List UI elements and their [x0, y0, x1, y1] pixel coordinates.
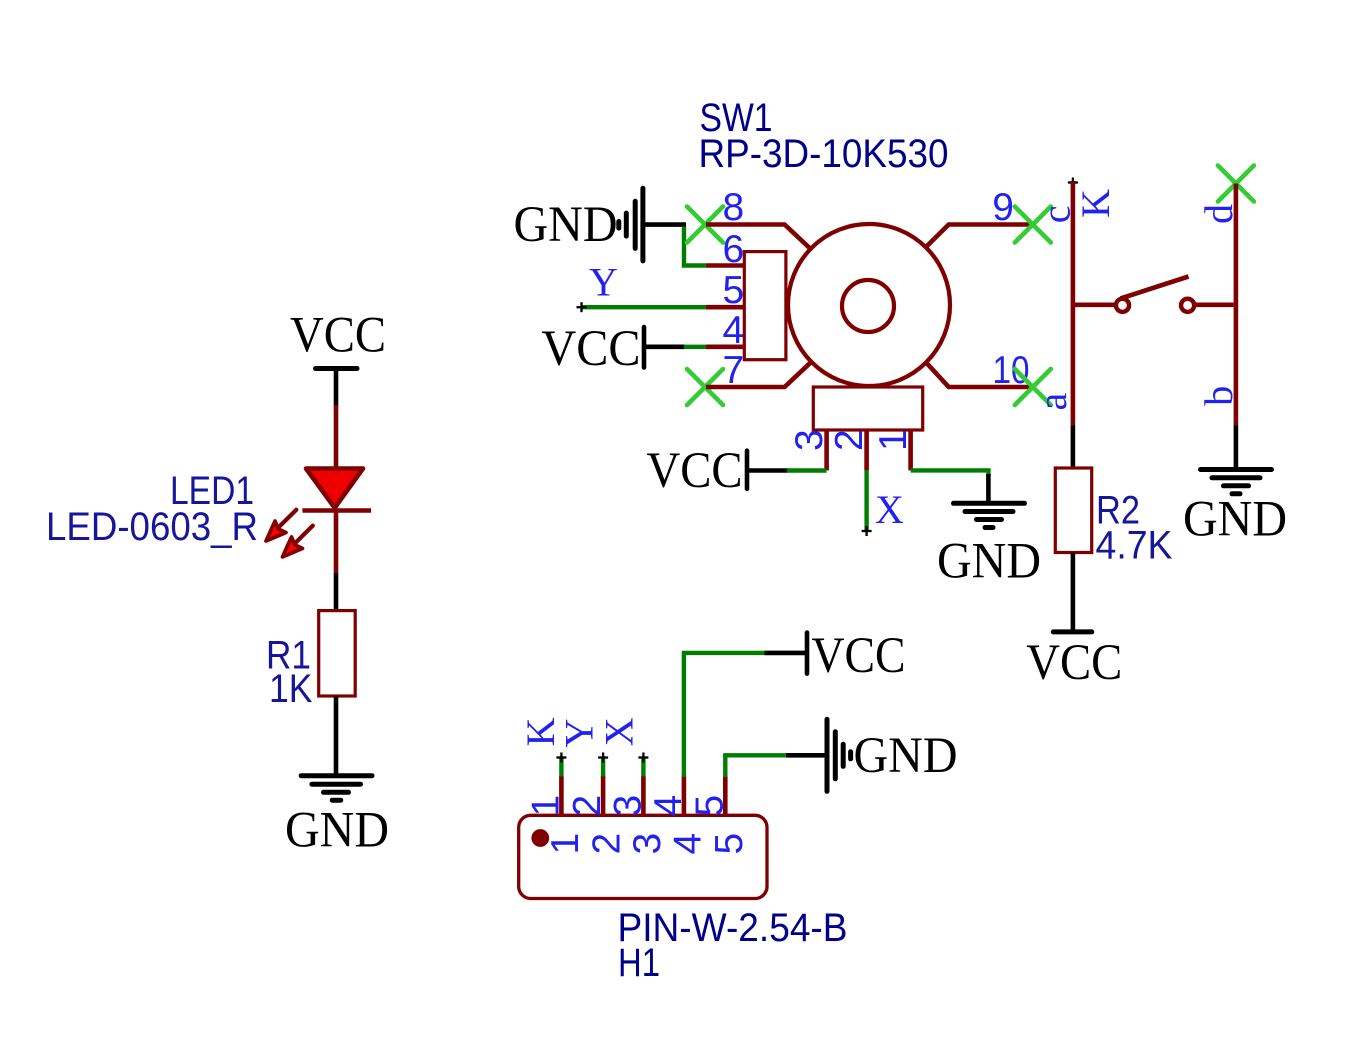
H1 pin 5	[723, 776, 728, 817]
power flag VCC (H1 pin 4)	[765, 628, 906, 684]
svg-text:GND: GND	[285, 803, 389, 859]
wire Y to SW1 pin 5	[583, 305, 707, 309]
svg-text:10: 10	[993, 349, 1030, 392]
LED LED1 emission arrow 1	[266, 510, 296, 541]
SW1 pin 2	[864, 430, 869, 470]
svg-text:LED-0603_R: LED-0603_R	[46, 505, 258, 549]
svg-text:8: 8	[723, 186, 745, 229]
svg-text:1: 1	[872, 429, 915, 451]
svg-text:4: 4	[647, 795, 690, 817]
SW1 pin 5	[706, 305, 744, 310]
wire VCC to SW1 pin 3	[787, 468, 827, 472]
H1 pin 1	[559, 776, 564, 817]
ground GND (H1 pin 5, rotated)	[786, 719, 958, 791]
H1 pin 3	[641, 776, 646, 817]
svg-text:5: 5	[708, 833, 751, 855]
svg-text:Y: Y	[589, 260, 618, 305]
wire Y stub (H1 pin 2)	[601, 758, 605, 777]
svg-text:9: 9	[992, 186, 1014, 229]
wire-end tick (Y)	[577, 302, 587, 312]
wire-end tick (H1 pin 3)	[638, 753, 648, 763]
svg-text:4: 4	[666, 833, 709, 855]
svg-text:4.7K: 4.7K	[1096, 524, 1173, 568]
SW1 pin 4	[706, 344, 744, 349]
power flag VCC (LED branch top)	[290, 308, 386, 369]
switch contact arm left	[1073, 302, 1114, 307]
svg-text:1: 1	[524, 795, 567, 817]
wire R1 to GND	[334, 696, 339, 776]
SW1 bottom block	[813, 387, 922, 430]
switch contact arm right	[1194, 302, 1233, 307]
SW1 pin 9	[927, 225, 1033, 247]
wire SW1 pin 1 to GND	[911, 470, 989, 476]
wire R2 to VCC	[1071, 553, 1076, 631]
H1 pin 2	[601, 776, 606, 817]
svg-text:VCC: VCC	[290, 308, 386, 364]
wire H1 pin 5 to GND	[725, 755, 786, 777]
wire H1 pin 4 to VCC	[684, 653, 765, 777]
svg-text:3: 3	[626, 833, 669, 855]
H1 pin 4	[682, 776, 687, 817]
SW1 pin 7	[706, 362, 812, 387]
svg-text:3: 3	[788, 429, 831, 451]
svg-text:X: X	[597, 717, 642, 746]
LED LED1 emission arrow 2	[283, 526, 313, 557]
switch contact circle left	[1116, 299, 1129, 312]
wire X net from SW1 pin 2	[864, 470, 868, 532]
svg-text:VCC: VCC	[647, 443, 743, 499]
svg-text:b: b	[1196, 386, 1241, 406]
ground GND (left of SW1, rotated)	[514, 188, 687, 261]
svg-text:2: 2	[566, 795, 609, 817]
wire (black) down to ground	[986, 474, 991, 504]
svg-text:5: 5	[688, 795, 731, 817]
svg-text:H1: H1	[618, 941, 660, 985]
svg-text:4: 4	[723, 309, 745, 352]
SW1 rotor outer circle	[788, 224, 950, 386]
svg-text:6: 6	[723, 228, 745, 271]
svg-text:X: X	[875, 487, 904, 532]
wire K stub (H1 pin 1)	[559, 758, 563, 777]
svg-text:2: 2	[586, 833, 629, 855]
svg-text:a: a	[1030, 393, 1075, 411]
wire (black) K to R2	[1071, 425, 1076, 469]
svg-text:GND: GND	[514, 197, 618, 253]
power flag VCC (SW1 pin 4)	[542, 321, 686, 377]
wire VCC to SW1 pin 4	[684, 345, 706, 349]
ground GND (net b)	[1183, 470, 1287, 548]
wire GND to SW1 pin 6	[684, 227, 706, 266]
switch lever	[1121, 277, 1189, 299]
svg-text:GND: GND	[937, 534, 1041, 590]
ground GND (LED branch)	[285, 776, 389, 859]
power flag VCC (SW1 pin 3)	[647, 443, 789, 499]
resistor R2	[1055, 468, 1091, 553]
wire-end tick (H1 pin 2)	[598, 753, 608, 763]
SW1 pin 8	[706, 225, 812, 250]
SW1 pin 6	[706, 263, 745, 268]
svg-text:VCC: VCC	[812, 628, 906, 684]
SW1 pin 10	[927, 363, 1033, 387]
LED LED1 body	[302, 469, 371, 511]
SW1 pin 3	[824, 430, 829, 470]
no-connect X (net d top)	[1218, 166, 1254, 202]
ground GND (SW1 pin 1)	[937, 503, 1041, 589]
svg-text:1K: 1K	[269, 667, 313, 711]
header H1 body	[519, 815, 767, 898]
svg-text:GND: GND	[1183, 492, 1287, 548]
switch contact circle right	[1181, 299, 1194, 312]
LED LED1 anode pin	[334, 405, 339, 468]
SW1 rotor inner circle	[842, 280, 894, 332]
header H1 pin-1 dot	[531, 829, 549, 847]
no-connect X (pin 10)	[1015, 369, 1051, 405]
LED LED1 cathode pin	[334, 511, 339, 574]
svg-text:5: 5	[723, 269, 745, 312]
wire LED1 to R1	[334, 573, 339, 612]
SW1 wiper block	[744, 252, 786, 360]
wire-end tick (H1 pin 1)	[556, 753, 566, 763]
wire d/b net vertical	[1234, 184, 1239, 426]
svg-text:K: K	[1073, 189, 1118, 218]
svg-text:1: 1	[544, 833, 587, 855]
svg-text:2: 2	[828, 429, 871, 451]
SW1 pin 1	[908, 430, 913, 470]
svg-text:RP-3D-10K530: RP-3D-10K530	[699, 132, 949, 176]
resistor R1	[319, 611, 356, 696]
wire VCC to LED1 anode	[334, 369, 339, 407]
svg-text:7: 7	[723, 349, 745, 392]
svg-text:VCC: VCC	[1026, 635, 1122, 691]
wire K net vertical	[1071, 181, 1076, 425]
no-connect X (pin 8)	[687, 207, 723, 243]
wire (black) b to GND	[1234, 425, 1239, 470]
no-connect X (pin 9)	[1015, 207, 1051, 243]
no-connect X (pin 7)	[687, 369, 723, 405]
power flag VCC (below R2)	[1026, 632, 1122, 691]
svg-text:VCC: VCC	[542, 321, 641, 377]
wire-end tick (K top)	[1068, 178, 1078, 188]
svg-text:GND: GND	[854, 728, 958, 784]
svg-text:Y: Y	[556, 719, 601, 748]
svg-text:3: 3	[606, 795, 649, 817]
wire X stub (H1 pin 3)	[641, 758, 645, 777]
wire-end tick (X)	[862, 526, 872, 536]
